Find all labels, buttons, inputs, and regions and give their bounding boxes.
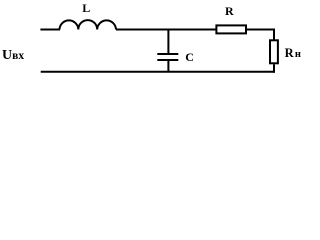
- svg-text:R: R: [285, 46, 295, 60]
- svg-text:R: R: [225, 4, 234, 18]
- resistor R: [216, 25, 246, 33]
- wire capacitor bottom stem: [167, 60, 169, 72]
- svg-text:Uвх: Uвх: [2, 48, 24, 63]
- wire right corner down: [273, 29, 275, 41]
- svg-text:L: L: [82, 1, 90, 15]
- wire top rail left stub: [40, 29, 60, 31]
- capacitor C top plate: [157, 53, 178, 55]
- node capacitor junction: [167, 30, 169, 55]
- inductor L: [60, 20, 117, 29]
- resistor Rн load: [270, 40, 278, 63]
- svg-text:н: н: [295, 49, 301, 60]
- wire top rail right: [246, 29, 275, 31]
- capacitor C bottom plate: [157, 59, 178, 61]
- wire top rail middle: [116, 29, 216, 31]
- wire bottom rail: [41, 71, 275, 73]
- svg-text:C: C: [185, 50, 194, 64]
- wire Rн bottom stem: [273, 64, 275, 72]
